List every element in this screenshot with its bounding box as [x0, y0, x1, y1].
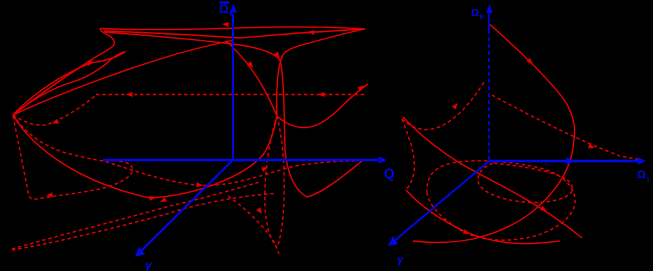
- wire lower loop node to saddle: [13, 115, 277, 198]
- wire top line T1 to tip: [100, 27, 365, 30]
- wire strand beta to right fold: [13, 52, 126, 116]
- label Omega-bar-k left vertical axis: [219, 2, 234, 19]
- svg-text:k: k: [230, 11, 234, 18]
- wire right separatrix diagonal: [277, 84, 368, 128]
- svg-text:Ω: Ω: [219, 2, 229, 16]
- arrows red right diagram: [452, 58, 595, 234]
- wire descender to saddle: [226, 41, 277, 116]
- svg-text:I: I: [647, 177, 649, 184]
- wire dashed homoclinic loop: [13, 116, 132, 200]
- svg-text:Q: Q: [384, 166, 395, 181]
- axis horizontal right (Omega_I): [489, 157, 646, 165]
- wire right dashed diagonal to axis tip: [492, 95, 642, 160]
- wire strand alpha with S-bend to left fold: [13, 29, 114, 115]
- axis vertical right dashed (Omega_R): [486, 4, 492, 160]
- wire right bottom sweep solid: [406, 190, 560, 244]
- wire right dashed big oval: [427, 161, 575, 240]
- label Omega_I right horizontal: [637, 169, 649, 184]
- wire strand gamma3 return from right fold: [13, 52, 126, 116]
- axis vertical left (Omega-bar): [230, 4, 236, 161]
- wire dashed hairpin left: [265, 116, 277, 247]
- wire fold curve from peak to parabola: [105, 32, 362, 197]
- wire dashed pair upper: [12, 182, 260, 249]
- svg-text:R: R: [480, 15, 485, 21]
- wire right dashed fold-down: [402, 119, 414, 190]
- wire hook from tip to saddle: [277, 29, 365, 116]
- label Omega_R right vertical: [471, 8, 485, 21]
- wire curve C3 third fan line: [13, 41, 232, 116]
- wire dashed pair lower: [12, 194, 274, 251]
- axis gamma right: [388, 161, 489, 246]
- arrows red left diagram: [46, 22, 364, 214]
- svg-text:Ω: Ω: [471, 8, 479, 19]
- wire dashed D1 under axis: [13, 115, 357, 186]
- wire dashed hairpin right: [277, 116, 284, 247]
- wire lower wedge edge T2: [104, 29, 365, 38]
- axis gamma left: [135, 160, 233, 257]
- wire right dashed U: [402, 82, 484, 130]
- wire dashed branch descending right: [228, 196, 279, 254]
- wire dashed horizontal trajectory: [96, 94, 367, 96]
- wire dashed cup to horizontal: [13, 95, 96, 125]
- svg-text:γ: γ: [397, 254, 404, 266]
- wire right big C solid: [413, 25, 575, 243]
- wire right long diagonal solid: [403, 117, 582, 238]
- axis Q horizontal left: [103, 156, 387, 164]
- wire right dashed small oval: [478, 163, 572, 202]
- svg-text:Ω: Ω: [637, 169, 646, 181]
